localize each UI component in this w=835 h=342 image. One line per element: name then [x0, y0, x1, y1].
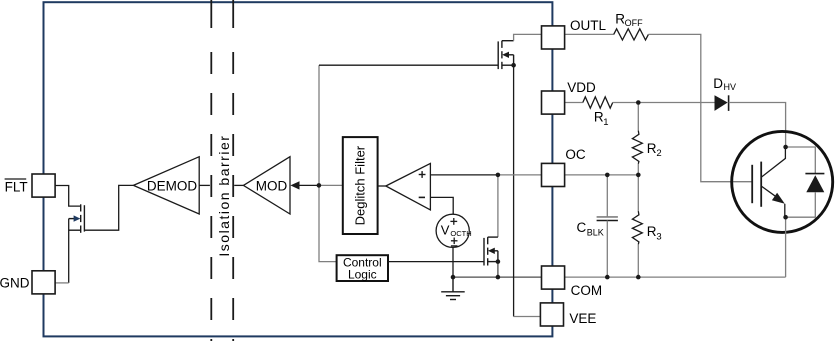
wire: OC pin left side to comparator node — [498, 174, 542, 176]
ground — [441, 277, 465, 299]
svg-text:C: C — [577, 220, 587, 235]
svg-text:R: R — [647, 224, 657, 239]
svg-text:COM: COM — [571, 283, 603, 298]
wire: VDD pin to R1 — [565, 102, 583, 104]
wire: comparator plus input to OC node — [430, 174, 498, 176]
svg-text:MOD: MOD — [256, 178, 288, 193]
node: CBLK bottom on COM line — [605, 275, 610, 280]
svg-text:1: 1 — [603, 117, 608, 128]
wire: MOD apex stub — [234, 184, 243, 186]
wire: R3 to COM line — [637, 244, 639, 277]
resistor ROFF — [614, 29, 649, 40]
node A: R1 / DHV / R2 — [636, 100, 641, 105]
wire: junction to clamp MOSFET gate — [319, 64, 498, 66]
pin FLT — [32, 174, 55, 197]
node: IGBT collector — [783, 145, 788, 150]
wire: freewheel diode branch bottom — [786, 192, 816, 217]
control logic block U3 — [337, 255, 388, 281]
svg-text:FLT: FLT — [5, 180, 28, 195]
isolation barrier dashed line left — [210, 0, 212, 28]
diode DHV — [715, 95, 728, 111]
wire: comparator minus input to VOCTH — [430, 197, 453, 214]
wire: COM pin external line — [565, 276, 786, 278]
wire: internal ground rail to COM pin — [453, 276, 542, 278]
svg-text:DEMOD: DEMOD — [147, 178, 198, 193]
IGBT emitter arrow — [772, 193, 785, 204]
svg-text:OC: OC — [565, 147, 586, 162]
wire: CBLK top stem — [606, 175, 608, 217]
svg-text:R: R — [647, 141, 657, 156]
svg-text:2: 2 — [656, 148, 661, 159]
svg-text:VDD: VDD — [567, 80, 596, 95]
svg-text:Logic: Logic — [348, 268, 377, 282]
wire: left MOSFET source/body down to GND pin — [68, 219, 70, 283]
svg-text:D: D — [713, 76, 723, 91]
node: M2 source — [496, 259, 501, 264]
deglitch filter block U2 — [343, 137, 378, 234]
wire: control logic output to M2 gate — [388, 261, 484, 263]
transistor M3 (OUTL clamp NMOS) — [498, 41, 513, 69]
node C: R3 bottom on COM line — [636, 275, 641, 280]
wire: FLT pin to left MOSFET drain — [55, 186, 80, 207]
op-amp U4 overcurrent comparator — [386, 163, 431, 210]
pin OUTL — [542, 26, 565, 49]
node: OC / comparator junction — [496, 173, 501, 178]
wire: R1 to node A — [613, 102, 639, 104]
wire: IGBT emitter down to COM line — [785, 217, 787, 277]
wire: deglitch filter output to MOD — [299, 184, 319, 186]
node: internal COM/ground junction — [451, 275, 456, 280]
pin VDD — [542, 91, 565, 114]
IGBT outline circle Q1 — [732, 131, 833, 232]
svg-text:BLK: BLK — [587, 227, 604, 237]
node: ground rail junction — [496, 275, 501, 280]
node: MOD/gate/control junction — [317, 183, 322, 188]
svg-text:VEE: VEE — [569, 311, 596, 326]
wire: VEE horizontal to pin — [514, 316, 542, 318]
IGBT gate bars — [751, 165, 753, 203]
svg-text:Isolation barrier: Isolation barrier — [216, 135, 232, 257]
transistor M2 body arrow — [488, 248, 495, 254]
wire: M3 source down to VEE — [513, 65, 515, 316]
wire: R2 to node B — [637, 164, 639, 175]
resistor R1 — [583, 97, 613, 108]
IC boundary (device outline) — [44, 2, 553, 336]
comparator minus marker — [419, 196, 425, 198]
wire: OUTL to ROFF — [565, 33, 614, 35]
transistor M1 (FLT open-drain NMOS, gate on right) — [69, 204, 85, 233]
pin GND — [32, 271, 55, 294]
svg-text:GND: GND — [0, 275, 30, 290]
svg-text:OFF: OFF — [625, 18, 643, 28]
pin COM — [542, 266, 565, 289]
wire: node A down to R2 — [637, 103, 639, 131]
capacitor CBLK — [597, 216, 618, 218]
voltage source VOCTH — [436, 214, 469, 247]
wire: M2 source to ground rail — [497, 262, 499, 278]
svg-text:V: V — [441, 222, 450, 237]
comparator plus marker — [419, 174, 426, 176]
transistor M2 (overcurrent pull-down NMOS) — [484, 237, 498, 265]
wire: DEMOD input stub — [199, 184, 210, 186]
node B: R2/R3 on OC line — [636, 173, 641, 178]
wire: junction up to clamp MOSFET gate and down to Control Logic — [319, 65, 337, 261]
wire: OC node down to M2 drain — [497, 175, 499, 237]
svg-text:Deglitch Filter: Deglitch Filter — [353, 145, 368, 225]
diode D2 freewheel cathode bar — [805, 173, 824, 175]
IGBT collector lead — [762, 147, 786, 177]
svg-text:HV: HV — [724, 82, 737, 92]
resistor R3 — [632, 211, 642, 244]
wire: OC pin to external divider — [565, 174, 639, 176]
pin VEE — [540, 303, 563, 326]
wire: VOCTH bottom to ground node — [452, 247, 454, 277]
wire: node A to DHV anode — [638, 102, 714, 104]
node: IGBT emitter — [783, 215, 788, 220]
op-amp DEMOD buffer — [133, 157, 199, 214]
svg-text:3: 3 — [656, 232, 661, 243]
MOD input arrowhead — [290, 181, 299, 189]
node: M3 source / VEE riser — [511, 63, 516, 68]
diode D2 freewheel — [806, 175, 824, 192]
node: CBLK top on OC line — [605, 173, 610, 178]
wire: CBLK bottom stem — [606, 221, 608, 278]
wire: node B down to R3 — [637, 175, 639, 211]
wire: ROFF to IGBT gate — [648, 34, 752, 181]
svg-text:OUTL: OUTL — [570, 18, 606, 33]
wire: DHV cathode to IGBT collector — [729, 103, 786, 148]
transistor M1 body arrow — [74, 215, 81, 221]
wire: DEMOD output to M1 gate — [84, 185, 133, 230]
isolation barrier dashed line right — [232, 0, 234, 28]
wire: freewheel diode branch top — [786, 147, 816, 174]
svg-text:OCTH: OCTH — [450, 229, 471, 238]
pin OC — [542, 163, 565, 186]
wire: comparator output stub to deglitch filter — [378, 185, 386, 187]
op-amp MOD buffer — [243, 157, 290, 214]
transistor M3 body arrow — [502, 52, 509, 58]
resistor R2 — [632, 131, 642, 164]
IGBT emitter lead — [762, 186, 776, 196]
wire: M3 drain to OUTL pin — [514, 34, 542, 40]
